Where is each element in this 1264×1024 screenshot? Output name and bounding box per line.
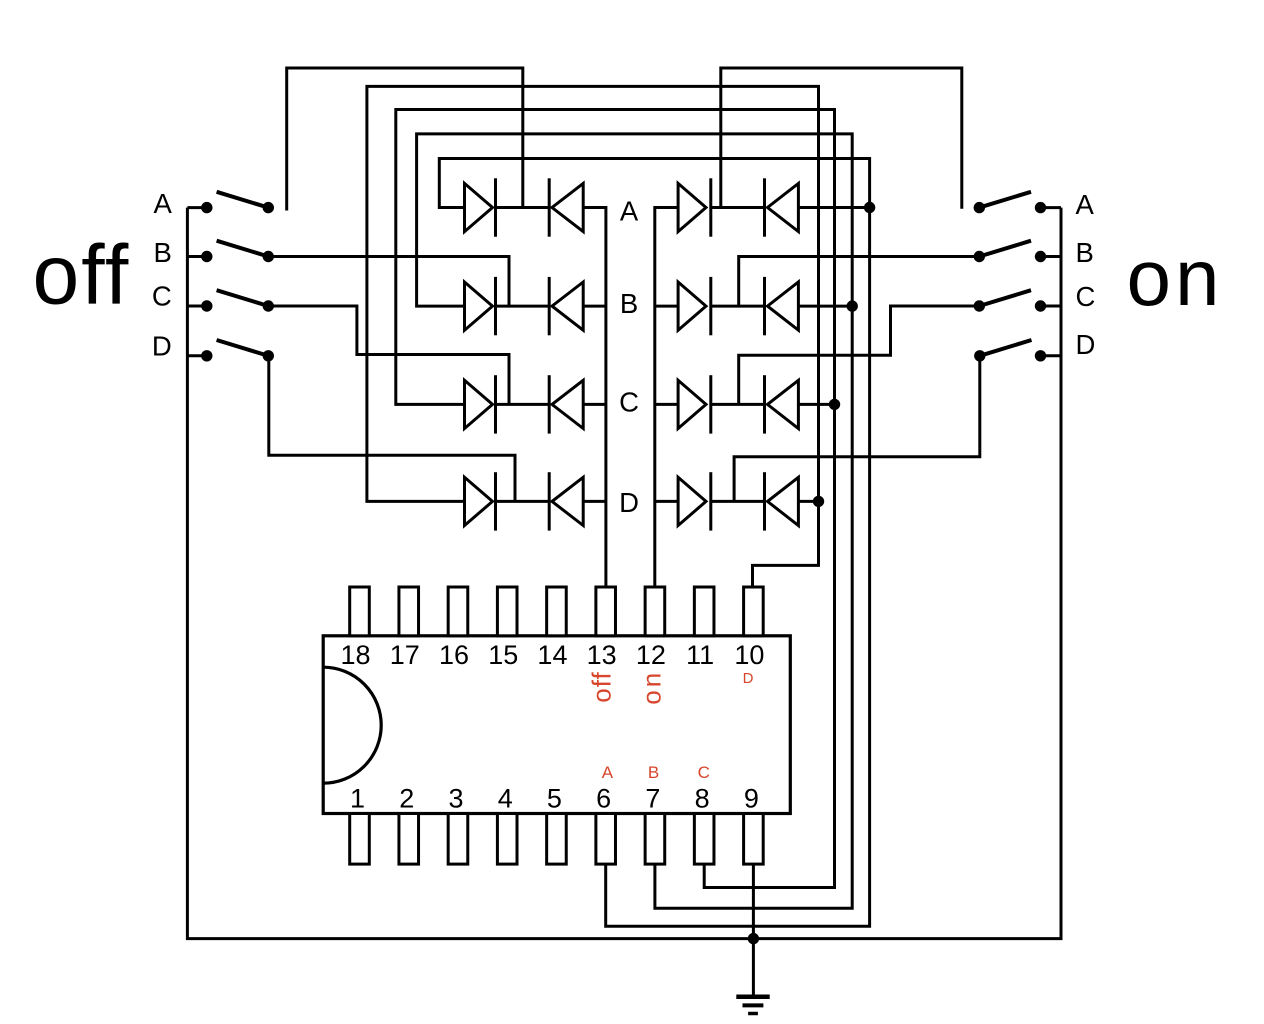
node row A label <box>620 196 639 227</box>
wire row A right diode pair junction <box>711 206 765 209</box>
wire stub left bus to switch D outer contact <box>187 354 206 357</box>
wire pin 9 down to ground rail <box>752 864 755 939</box>
IC U1 bottom pad pin 3 <box>448 814 468 865</box>
IC U1 top pad pin 12 <box>645 587 665 636</box>
pin number 17 <box>390 640 420 670</box>
diode D2 row A left pair anode-right <box>549 178 583 236</box>
svg-text:B: B <box>1076 237 1094 268</box>
pin number 12 <box>636 640 666 670</box>
label C (pin 8, red) <box>698 763 710 782</box>
svg-text:12: 12 <box>636 640 666 670</box>
svg-text:off: off <box>587 671 617 702</box>
svg-text:on: on <box>637 670 667 705</box>
wire stub right bus to switch A outer contact <box>1041 206 1062 209</box>
pin number 7 <box>645 784 660 814</box>
wire stub left bus to switch A outer contact <box>187 206 206 209</box>
svg-text:A: A <box>1076 189 1095 220</box>
wire switch on-C jog to row C right diode junction <box>739 306 980 404</box>
switch on-A (right, open) <box>974 192 1047 214</box>
svg-text:C: C <box>619 386 639 417</box>
wire switch off-A riser over top line 1 to row A left diode junction <box>287 68 523 211</box>
IC U1 top pad pin 17 <box>399 587 419 636</box>
diode D3 row A right pair anode-left <box>678 178 711 236</box>
label off (left, large) <box>33 228 131 322</box>
svg-text:on: on <box>1127 233 1224 322</box>
svg-text:3: 3 <box>448 784 463 814</box>
IC U1 top pad pin 10 <box>744 587 764 636</box>
IC U1 bottom pad pin 8 <box>694 814 714 865</box>
diode D5 row B left pair anode-left <box>465 277 496 335</box>
wire stub right bus to switch D outer contact <box>1041 354 1062 357</box>
pin number 10 <box>734 640 764 670</box>
label switch on-B <box>1076 237 1094 268</box>
IC U1 bottom pad pin 9 <box>744 814 764 865</box>
wire switch on-A riser over top line 1 to row A right diode junction <box>721 68 962 209</box>
svg-text:16: 16 <box>439 640 469 670</box>
IC U1 bottom pad pin 2 <box>399 814 419 865</box>
svg-text:8: 8 <box>695 784 710 814</box>
svg-text:17: 17 <box>390 640 420 670</box>
svg-text:D: D <box>743 670 754 687</box>
wire row D right diode pair junction <box>711 500 765 503</box>
switch on-D (right, open) <box>974 340 1046 361</box>
diode D15 row D right pair anode-left <box>678 472 711 530</box>
pin number 13 <box>587 640 617 670</box>
wire on column to row B right diode input <box>655 305 678 308</box>
label on (pin 12, red, rotated) <box>637 670 667 705</box>
IC U1 bottom pad pin 5 <box>547 814 567 865</box>
wire switch off-C jog to row C left diode junction <box>268 306 509 404</box>
svg-text:5: 5 <box>547 784 562 814</box>
label switch on-D <box>1076 329 1096 360</box>
wire row B right diode output to net riser <box>798 305 852 308</box>
switch off-B (left, open) <box>201 241 274 263</box>
IC U1 bottom pad pin 6 <box>596 814 616 865</box>
pin number 1 <box>350 784 365 814</box>
svg-text:A: A <box>153 188 172 219</box>
svg-text:6: 6 <box>596 784 611 814</box>
wire stub right bus to switch B outer contact <box>1041 255 1062 258</box>
IC U1 top pad pin 14 <box>547 587 567 636</box>
svg-text:D: D <box>152 331 172 362</box>
label off (pin 13, red, rotated) <box>587 671 617 702</box>
pin number 3 <box>448 784 463 814</box>
label B (pin 7, red) <box>648 763 659 782</box>
wire stub left bus to switch C outer contact <box>187 305 206 308</box>
label switch off-C <box>152 281 172 312</box>
pin number 4 <box>498 784 513 814</box>
svg-text:B: B <box>620 288 638 319</box>
svg-text:A: A <box>602 763 614 782</box>
svg-text:C: C <box>152 281 172 312</box>
svg-text:D: D <box>1076 329 1096 360</box>
pin number 6 <box>596 784 611 814</box>
wire row D left diode pair junction <box>496 500 550 503</box>
svg-text:4: 4 <box>498 784 513 814</box>
pin number 14 <box>537 640 567 670</box>
pin number 11 <box>686 640 714 670</box>
wire row A right diode output to net riser <box>798 206 869 209</box>
wire row C left diode pair junction <box>496 403 550 406</box>
wire net C: row C left input, top line 3, right riser, bottom run to pin 8 <box>396 110 835 888</box>
svg-text:2: 2 <box>399 784 414 814</box>
label switch on-C <box>1076 281 1096 312</box>
IC U1 body (18-pin DIP) <box>323 636 790 814</box>
pin number 5 <box>547 784 562 814</box>
switch off-A (left, open) <box>201 192 274 214</box>
switch on-B (right, open) <box>974 241 1047 263</box>
svg-text:B: B <box>648 763 659 782</box>
diode D6 row B left pair anode-right <box>549 277 583 335</box>
node row B output junction <box>847 300 858 311</box>
wire row B left diode output to off column <box>583 305 606 308</box>
diode D10 row C left pair anode-right <box>549 375 583 433</box>
wire switch on-D drop to row D right diode junction <box>734 356 980 502</box>
IC U1 top pad pin 18 <box>350 587 370 636</box>
IC U1 top pad pin 15 <box>497 587 517 636</box>
wire stub right bus to switch C outer contact <box>1041 305 1062 308</box>
wire row A left diode pair junction <box>496 206 550 209</box>
IC U1 top pad pin 13 <box>596 587 616 636</box>
pin number 16 <box>439 640 469 670</box>
svg-text:1: 1 <box>350 784 365 814</box>
label switch off-D <box>152 331 172 362</box>
wire off column from row A to pin 13 <box>583 208 606 588</box>
ground <box>736 939 769 1014</box>
node row A output junction <box>864 202 875 213</box>
pin number 2 <box>399 784 414 814</box>
svg-text:A: A <box>620 196 639 227</box>
node row C output junction <box>829 399 840 410</box>
diode D1 row A left pair anode-left <box>465 178 496 236</box>
svg-text:15: 15 <box>488 640 518 670</box>
wire ground rail with left and right switch buses <box>187 208 1061 939</box>
wire row D right diode output to net riser <box>798 500 818 503</box>
svg-text:11: 11 <box>686 640 714 670</box>
label switch on-A <box>1076 189 1095 220</box>
wire row D left diode output to off column <box>583 500 606 503</box>
node ground rail junction <box>748 933 759 944</box>
wire on column to row D right diode input <box>655 500 678 503</box>
svg-text:D: D <box>619 487 639 518</box>
label on (right, large) <box>1127 233 1224 322</box>
diode D9 row C left pair anode-left <box>465 375 496 433</box>
wire net D: row D left input, top line 2, right riser down to pin 10 <box>367 86 819 587</box>
diode D14 row D left pair anode-right <box>549 472 583 530</box>
node row D output junction <box>813 496 824 507</box>
pin number 9 <box>744 784 759 814</box>
pin number 8 <box>695 784 710 814</box>
wire switch on-B to row B right diode junction <box>739 257 980 307</box>
wire stub left bus to switch B outer contact <box>187 255 206 258</box>
svg-text:C: C <box>698 763 710 782</box>
diode D11 row C right pair anode-left <box>678 375 711 433</box>
wire row C left diode output to off column <box>583 403 606 406</box>
diode D4 row A right pair anode-right <box>765 178 799 236</box>
svg-text:B: B <box>153 237 171 268</box>
wire on column from row A to pin 12 <box>655 208 678 588</box>
diode D13 row D left pair anode-left <box>465 472 496 530</box>
diode D12 row C right pair anode-right <box>765 375 799 433</box>
switch off-C (left, open) <box>201 290 274 311</box>
wire on column to row C right diode input <box>655 403 678 406</box>
IC U1 top pad pin 16 <box>448 587 468 636</box>
wire switch off-B to row B left diode junction <box>268 257 509 307</box>
diode D16 row D right pair anode-right <box>765 472 799 530</box>
wire row B right diode pair junction <box>711 305 765 308</box>
pin number 15 <box>488 640 518 670</box>
svg-text:14: 14 <box>537 640 567 670</box>
wire row C right diode output to net riser <box>798 403 834 406</box>
switch on-C (right, open) <box>974 290 1047 311</box>
diode D7 row B right pair anode-left <box>678 277 711 335</box>
svg-text:C: C <box>1076 281 1096 312</box>
IC U1 bottom pad pin 7 <box>645 814 665 865</box>
wire net B: row B left input, top line 4, right riser, bottom run to pin 7 <box>417 134 853 908</box>
pin number 18 <box>340 640 370 670</box>
node row B label <box>620 288 638 319</box>
svg-text:10: 10 <box>734 640 764 670</box>
svg-text:18: 18 <box>340 640 370 670</box>
wire row C right diode pair junction <box>711 403 765 406</box>
wire switch off-D drop to row D left diode junction <box>269 356 515 502</box>
label A (pin 6, red) <box>602 763 614 782</box>
node row D label <box>619 487 639 518</box>
wire row B left diode pair junction <box>496 305 550 308</box>
svg-text:9: 9 <box>744 784 759 814</box>
wire net A: row A left input, top line 5, right riser, bottom run to pin 6 <box>439 159 869 927</box>
IC U1 bottom pad pin 4 <box>497 814 517 865</box>
node row C label <box>619 386 639 417</box>
svg-text:off: off <box>33 228 131 322</box>
IC U1 top pad pin 11 <box>694 587 714 636</box>
svg-text:7: 7 <box>645 784 660 814</box>
svg-text:13: 13 <box>587 640 617 670</box>
diode D8 row B right pair anode-right <box>765 277 799 335</box>
switch off-D (left, open) <box>201 340 274 361</box>
IC U1 bottom pad pin 1 <box>350 814 370 865</box>
label D (pin 10, red) <box>743 670 754 687</box>
label switch off-A <box>153 188 172 219</box>
label switch off-B <box>153 237 171 268</box>
